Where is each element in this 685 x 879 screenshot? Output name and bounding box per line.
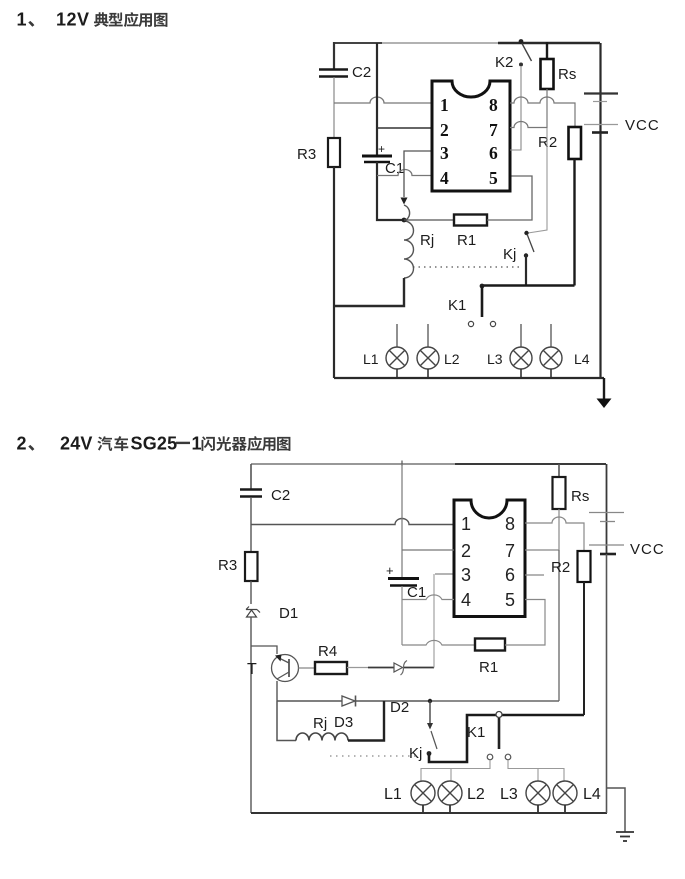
svg-text:SG25: SG25 <box>131 434 178 454</box>
op-amp / timer IC U2 body with notch <box>454 500 525 617</box>
mechanical link Rj-Kj dotted circuit 2 <box>330 755 420 757</box>
lamp L2 circuit 2 <box>438 781 485 813</box>
resistor R2 circuit 2 <box>551 551 591 582</box>
switch K1 <box>448 284 496 327</box>
resistor R3 <box>297 138 340 167</box>
svg-text:L3: L3 <box>487 351 503 367</box>
resistor R2 <box>538 127 581 159</box>
svg-text:K1: K1 <box>448 297 466 314</box>
resistor R4 <box>315 643 347 674</box>
svg-text:Kj: Kj <box>503 246 516 263</box>
heading circuit 1 <box>17 10 168 30</box>
wire R1 to pin 5 <box>487 176 532 220</box>
svg-text:Rs: Rs <box>571 488 589 505</box>
wire transistor base to R4 <box>299 667 316 669</box>
wire left rail top segment circuit 2 <box>250 464 252 489</box>
diode D3 <box>334 696 356 732</box>
wire pin 7 net (hop over K2 line) <box>510 122 547 128</box>
resistor R1 <box>454 215 487 250</box>
wire pin 2 net <box>377 127 432 129</box>
wire top rail circuit 1 <box>334 42 382 44</box>
op-amp / timer IC U1 body with notch <box>432 81 510 191</box>
wire emitter node down to D3/Rj pair <box>276 681 278 701</box>
svg-text:R3: R3 <box>218 557 237 574</box>
wire K1 right contact to lamps L3 L4 bus <box>508 760 564 781</box>
capacitor C1 circuit 2 <box>386 563 426 601</box>
wire pin 6 stub circuit 2 <box>525 574 544 576</box>
svg-text:VCC: VCC <box>625 117 660 134</box>
svg-text:C2: C2 <box>271 487 290 504</box>
svg-text:24V: 24V <box>60 434 93 454</box>
mechanical link Rj-Kj dotted <box>413 266 523 268</box>
zener diode D1 <box>246 605 298 622</box>
switch K1 circuit 2 <box>467 712 511 760</box>
switch Kj circuit 2 <box>409 699 437 762</box>
wire diode to pin 3 riser (hops over pin4 and R1 wires) <box>404 667 434 669</box>
svg-text:8: 8 <box>505 514 515 534</box>
lamp L4 <box>540 324 590 378</box>
wire VCC branch vertical to C1 <box>376 43 378 155</box>
svg-text:4: 4 <box>440 168 449 188</box>
relay coil Rj <box>404 205 434 278</box>
svg-text:2: 2 <box>461 541 471 561</box>
svg-text:R1: R1 <box>457 232 476 249</box>
svg-text:R1: R1 <box>479 659 498 676</box>
wire pin 2 net circuit 2 <box>402 549 454 551</box>
svg-text:12V: 12V <box>56 10 90 30</box>
wire R2 bottom lead to K1 rail circuit 2 <box>583 582 585 715</box>
svg-text:D3: D3 <box>334 714 353 731</box>
wire pin 8 net circuit 2 (hop over Rs line) to R2 top <box>525 517 584 551</box>
wire base branch to transistor <box>251 646 277 654</box>
svg-text:1: 1 <box>440 95 449 115</box>
wire left rail D1 to bottom <box>250 617 252 813</box>
wire coil bottom to left rail <box>334 278 404 306</box>
wire C1 negative lead down to R1 line <box>401 586 403 645</box>
wire pin 4 net circuit 2 (hop over pin3 riser) <box>402 595 454 600</box>
svg-text:L1: L1 <box>363 351 379 367</box>
wire pin 7 net circuit 2 <box>525 549 559 551</box>
wire right rail circuit 2 <box>606 554 608 813</box>
lamp L3 <box>487 324 532 378</box>
svg-text:1: 1 <box>461 514 471 534</box>
svg-text:L1: L1 <box>384 786 402 803</box>
wire pin 3 net circuit 2 <box>435 573 454 575</box>
wire pin 8 net (hops over K2 and Rs lines) to R2 top <box>510 97 575 127</box>
wire left rail below R3 <box>333 167 335 378</box>
svg-text:2: 2 <box>17 434 27 454</box>
switch K2 <box>495 39 532 71</box>
wire C1 negative lead down and right to coil node <box>377 162 404 220</box>
svg-text:L2: L2 <box>444 351 460 367</box>
wire R1 left lead <box>404 219 454 221</box>
wire right rail circuit 1 <box>599 133 601 378</box>
relay coil Rj circuit 2 <box>296 715 348 741</box>
switch Kj <box>503 231 534 263</box>
svg-text:K1: K1 <box>467 724 485 741</box>
svg-text:7: 7 <box>505 541 515 561</box>
wire D3 branch horizontal <box>277 700 342 702</box>
resistor Rs circuit 2 <box>553 464 590 509</box>
svg-text:6: 6 <box>489 143 498 163</box>
svg-text:T: T <box>247 661 257 678</box>
wire VCC branch vertical circuit 2 <box>401 464 403 578</box>
svg-text:R4: R4 <box>318 643 337 660</box>
svg-text:C1: C1 <box>407 584 426 601</box>
wire bottom rail circuit 1 <box>334 377 604 379</box>
transistor T (PNP) <box>247 655 299 682</box>
svg-text:Rj: Rj <box>313 715 327 732</box>
capacitor C2 <box>319 64 371 81</box>
wire K1 left contact to lamps L1 L2 bus <box>421 760 490 781</box>
svg-text:VCC: VCC <box>630 541 665 558</box>
svg-text:L4: L4 <box>583 786 601 803</box>
wire to Rs/pin7 riser <box>430 700 559 702</box>
battery VCC circuit 2 <box>589 464 665 558</box>
diode D2 (on R4 line) <box>390 661 409 717</box>
svg-text:3: 3 <box>461 565 471 585</box>
svg-text:6: 6 <box>505 565 515 585</box>
wire pin 1 net circuit 2 (hop over C1 vertical) <box>251 519 454 525</box>
wire Kj bottom contact to K1 node <box>525 255 527 286</box>
svg-text:Kj: Kj <box>409 745 422 762</box>
wire D3 to coil right branch <box>355 700 430 702</box>
svg-text:3: 3 <box>440 143 449 163</box>
lamp L1 <box>363 324 408 378</box>
svg-text:C1: C1 <box>385 160 404 177</box>
resistor R3 circuit 2 <box>218 552 258 581</box>
wire coil to right branch <box>348 701 384 741</box>
wire Kj bottom contact to K1 rail <box>429 715 584 762</box>
svg-text:R2: R2 <box>551 559 570 576</box>
svg-text:5: 5 <box>505 590 515 610</box>
wire left rail top segment <box>333 42 335 70</box>
svg-text:Rj: Rj <box>420 232 434 249</box>
wire R1 left lead circuit 2 (hop over pin3 riser) <box>402 640 475 645</box>
svg-text:2: 2 <box>440 120 449 140</box>
lamp L4 circuit 2 <box>553 781 601 813</box>
lamp L2 <box>417 324 460 378</box>
resistor Rs <box>541 42 577 128</box>
wire R2 bottom lead down to K1 node <box>573 159 575 286</box>
wire coil left branch <box>277 701 296 741</box>
svg-text:L2: L2 <box>467 786 485 803</box>
battery VCC circuit 1 <box>584 43 660 134</box>
wire left rail pin1 node to R3 <box>333 103 335 138</box>
wire K1 node horizontal <box>482 284 575 286</box>
capacitor C2 circuit 2 <box>240 487 290 504</box>
junction tick on top rail <box>401 461 403 467</box>
svg-text:Rs: Rs <box>558 66 576 83</box>
wire left rail C2 to pin1 node <box>333 77 335 103</box>
svg-text:1: 1 <box>17 10 27 30</box>
svg-text:L3: L3 <box>500 786 518 803</box>
capacitor C1 (electrolytic, + mark) <box>362 142 404 177</box>
svg-text:D1: D1 <box>279 605 298 622</box>
svg-text:4: 4 <box>461 590 471 610</box>
lamp L1 circuit 2 <box>384 781 435 813</box>
wire R4 to diode D2 <box>347 667 368 669</box>
lamp L3 circuit 2 <box>500 781 550 813</box>
svg-text:K2: K2 <box>495 54 513 71</box>
svg-text:R2: R2 <box>538 134 557 151</box>
svg-text:8: 8 <box>489 95 498 115</box>
wire pin 3 net to relay coil (with down arrow) <box>404 151 432 197</box>
svg-text:+: + <box>386 563 394 578</box>
wire R3 to D1 <box>250 581 252 604</box>
svg-text:+: + <box>378 142 385 156</box>
resistor R1 circuit 2 <box>475 639 505 677</box>
svg-text:1: 1 <box>192 434 202 454</box>
svg-text:C2: C2 <box>352 64 371 81</box>
wire pin 1 net (left rail to IC pin 1, hop over vertical) <box>334 97 432 103</box>
wire Rs/pin7 node down to Kj top contact <box>528 128 547 233</box>
ground circuit 2 <box>607 788 634 841</box>
wire bottom rail circuit 2 <box>251 812 607 814</box>
wire left rail C2 to R3 <box>250 497 252 552</box>
wire pin 4 net (hop over pin3 vertical) <box>377 170 432 176</box>
wire top rail circuit 2 <box>251 463 606 465</box>
wire K2 to pin 6 <box>510 67 521 150</box>
svg-text:5: 5 <box>489 168 498 188</box>
wire R1 to pin 5 circuit 2 <box>505 600 545 646</box>
heading circuit 2 <box>17 434 291 454</box>
svg-text:7: 7 <box>489 120 498 140</box>
wire Rs bottom / pin 7 node <box>558 509 560 550</box>
junction Rj / R1 node <box>402 218 407 223</box>
svg-text:R3: R3 <box>297 146 316 163</box>
svg-text:L4: L4 <box>574 351 590 367</box>
ground (arrow) circuit 1 <box>597 378 612 408</box>
wire pin 7 node down to Kj line <box>558 550 560 701</box>
